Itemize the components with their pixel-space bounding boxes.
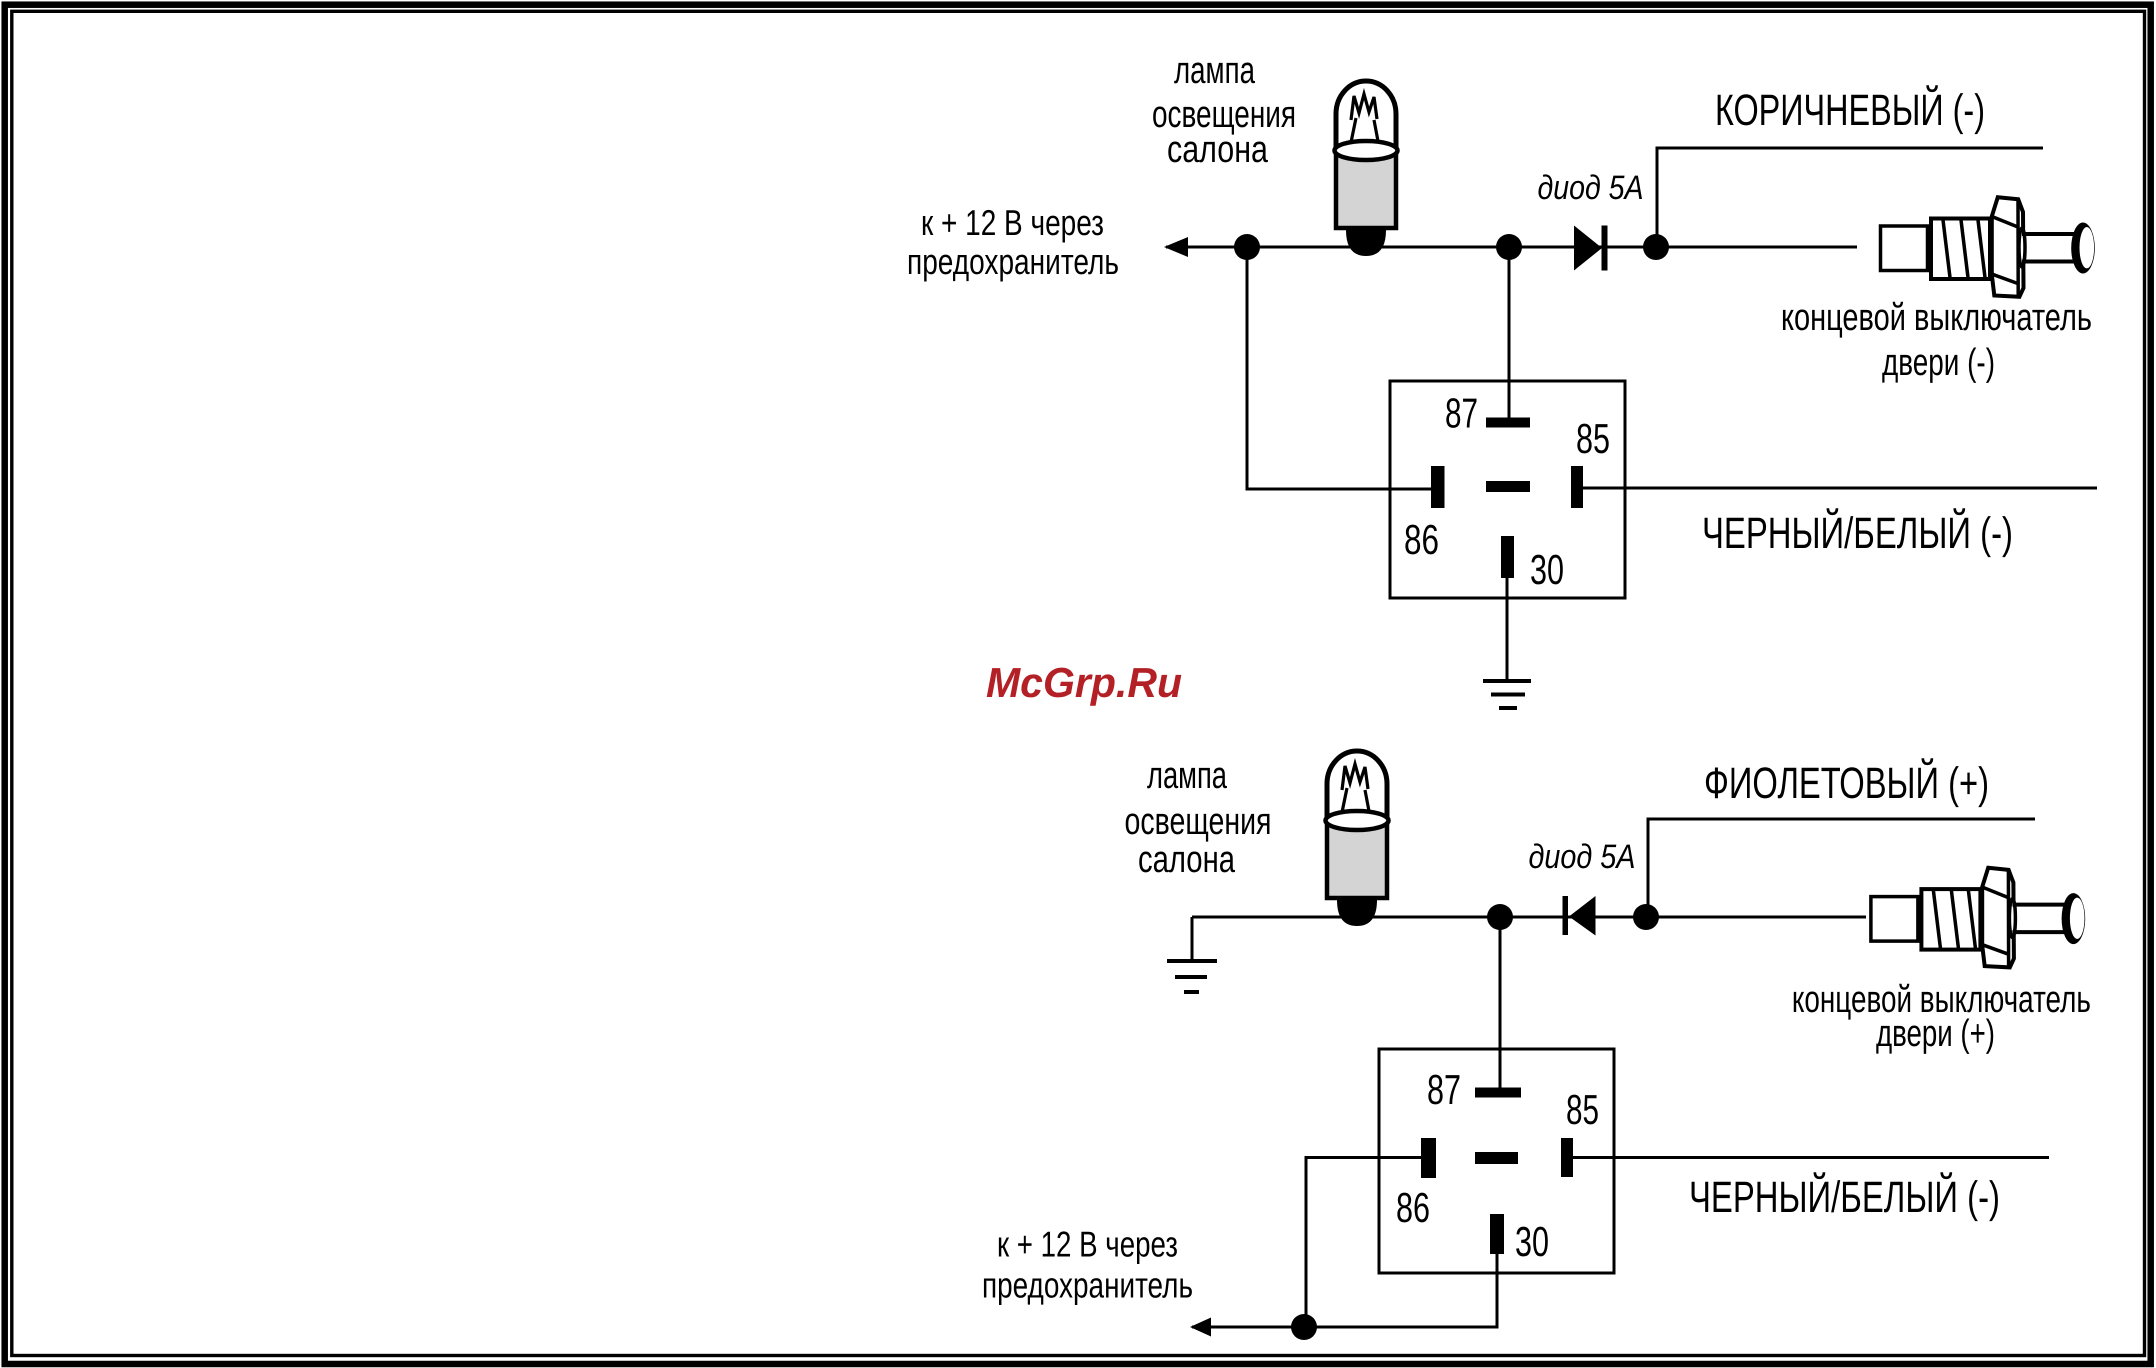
- svg-text:к + 12 В через: к + 12 В через: [997, 1224, 1178, 1265]
- wire main top with arrow to +12V fuse: [1166, 246, 1857, 249]
- lamp L1 base contact: [1346, 230, 1386, 256]
- node C (junction to brown wire): [1643, 234, 1669, 260]
- svg-text:предохранитель: предохранитель: [907, 241, 1119, 282]
- relay K1 pin 86: [1431, 466, 1445, 508]
- relay K1 box: [1390, 381, 1625, 598]
- label: к + 12 В через предохранитель (bottom): [982, 1224, 1193, 1306]
- label концевой выключатель двери (+): [1792, 979, 2091, 1055]
- lamp L2 collar: [1326, 811, 1389, 830]
- wire relay 30 down to ground: [1506, 578, 1509, 681]
- door switch SW2: [1871, 868, 2085, 968]
- svg-text:предохранитель: предохранитель: [982, 1265, 1193, 1306]
- svg-text:86: 86: [1404, 516, 1439, 563]
- node E (junction to violet wire): [1633, 904, 1659, 930]
- svg-text:86: 86: [1396, 1184, 1430, 1231]
- relay K2 pin 87: [1475, 1088, 1521, 1098]
- svg-text:освещения: освещения: [1125, 801, 1272, 843]
- label lamp L1: лампа освещения салона: [1152, 50, 1296, 171]
- wire bottom with arrow to +12V fuse: [1192, 1326, 1499, 1329]
- lamp L2: [1326, 751, 1389, 926]
- wire node D down to relay pin 87: [1499, 917, 1502, 1088]
- relay K1 pin 87: [1486, 418, 1530, 428]
- relay K2 center contact: [1475, 1152, 1518, 1164]
- svg-text:85: 85: [1566, 1086, 1599, 1133]
- lamp L1 glass dome: [1336, 81, 1396, 152]
- relay K2 pin 85: [1561, 1138, 1573, 1177]
- svg-text:салона: салона: [1138, 839, 1236, 881]
- svg-text:87: 87: [1445, 390, 1478, 437]
- node A (junction to relay 86): [1234, 234, 1260, 260]
- lamp L1 filament supports: [1348, 118, 1381, 157]
- svg-text:салона: салона: [1167, 129, 1269, 171]
- node F (junction on bottom wire): [1291, 1314, 1317, 1340]
- svg-text:ЧЕРНЫЙ/БЕЛЫЙ (-): ЧЕРНЫЙ/БЕЛЫЙ (-): [1702, 508, 2013, 558]
- diode VD1 5A: [1574, 226, 1608, 271]
- lamp L1 metal base: [1336, 151, 1396, 228]
- lamp L2 glass dome: [1327, 751, 1387, 822]
- relay K2 pin 30: [1490, 1214, 1504, 1254]
- svg-text:к + 12 В через: к + 12 В через: [921, 202, 1104, 243]
- svg-text:двери (-): двери (-): [1882, 342, 1995, 384]
- switch threaded bushing: [1931, 219, 1990, 280]
- svg-text:87: 87: [1427, 1066, 1461, 1113]
- svg-text:диод 5А: диод 5А: [1529, 838, 1636, 876]
- svg-text:двери (+): двери (+): [1876, 1013, 1995, 1055]
- relay K2 pin 86: [1421, 1138, 1436, 1178]
- wire relay 30 down to bottom wire: [1496, 1254, 1499, 1327]
- lamp L2 base contact: [1337, 900, 1377, 926]
- svg-text:концевой выключатель: концевой выключатель: [1781, 297, 2092, 339]
- switch button cap: [2071, 223, 2095, 274]
- lamp L1: [1335, 81, 1398, 256]
- svg-text:30: 30: [1530, 546, 1564, 593]
- switch body: [1881, 226, 1928, 271]
- switch plunger collar: [2019, 228, 2025, 267]
- wire relay 85 to black/white label line: [1583, 487, 2097, 490]
- wire 86 branch: left then down to bottom wire: [1306, 1158, 1421, 1328]
- wire relay 85 to black/white label line (bottom): [1573, 1156, 2049, 1159]
- relay K1 pin 85: [1571, 466, 1583, 508]
- svg-text:ФИОЛЕТОВЫЙ (+): ФИОЛЕТОВЫЙ (+): [1704, 758, 1989, 808]
- lamp L2 filament supports: [1339, 788, 1372, 827]
- node D (junction to relay 87, bottom): [1487, 904, 1513, 930]
- wire violet ФИОЛЕТОВЫЙ: up and right: [1648, 819, 2035, 917]
- label lamp L2: лампа освещения салона: [1125, 755, 1272, 881]
- svg-text:30: 30: [1515, 1218, 1549, 1265]
- wire node A down and right to relay pin 86: [1247, 247, 1431, 489]
- lamp L1 collar: [1335, 141, 1398, 160]
- label: к + 12 В через предохранитель (top): [907, 202, 1119, 282]
- svg-text:лампа: лампа: [1147, 755, 1228, 797]
- wire down to ground G2: [1191, 917, 1194, 961]
- svg-text:McGrp.Ru: McGrp.Ru: [986, 659, 1182, 706]
- lamp L2 filament zigzag: [1342, 764, 1368, 790]
- svg-text:лампа: лампа: [1174, 50, 1256, 92]
- label концевой выключатель двери (-): [1781, 297, 2092, 384]
- svg-text:85: 85: [1576, 415, 1610, 462]
- svg-text:диод 5А: диод 5А: [1538, 169, 1644, 207]
- switch plunger: [2022, 234, 2083, 262]
- ground G1: [1483, 681, 1531, 708]
- node B (junction to relay 87): [1496, 234, 1522, 260]
- wire node B down to relay pin 87: [1508, 247, 1511, 418]
- wire main bottom: [1192, 916, 1866, 919]
- switch hex nut: [1992, 197, 2024, 297]
- lamp L1 filament zigzag: [1351, 94, 1377, 120]
- svg-text:КОРИЧНЕВЫЙ (-): КОРИЧНЕВЫЙ (-): [1715, 85, 1985, 135]
- door switch SW1: [1881, 197, 2095, 297]
- relay K2 box: [1379, 1049, 1614, 1273]
- relay K1 center contact: [1486, 481, 1530, 492]
- diode VD2 5A (pointing left): [1563, 896, 1596, 936]
- wire brown КОРИЧНЕВЫЙ: up and right: [1657, 148, 2043, 247]
- svg-text:ЧЕРНЫЙ/БЕЛЫЙ (-): ЧЕРНЫЙ/БЕЛЫЙ (-): [1689, 1172, 2000, 1222]
- ground G2: [1167, 961, 1217, 992]
- lamp L2 metal base: [1327, 821, 1387, 898]
- relay K1 pin 30: [1501, 536, 1514, 578]
